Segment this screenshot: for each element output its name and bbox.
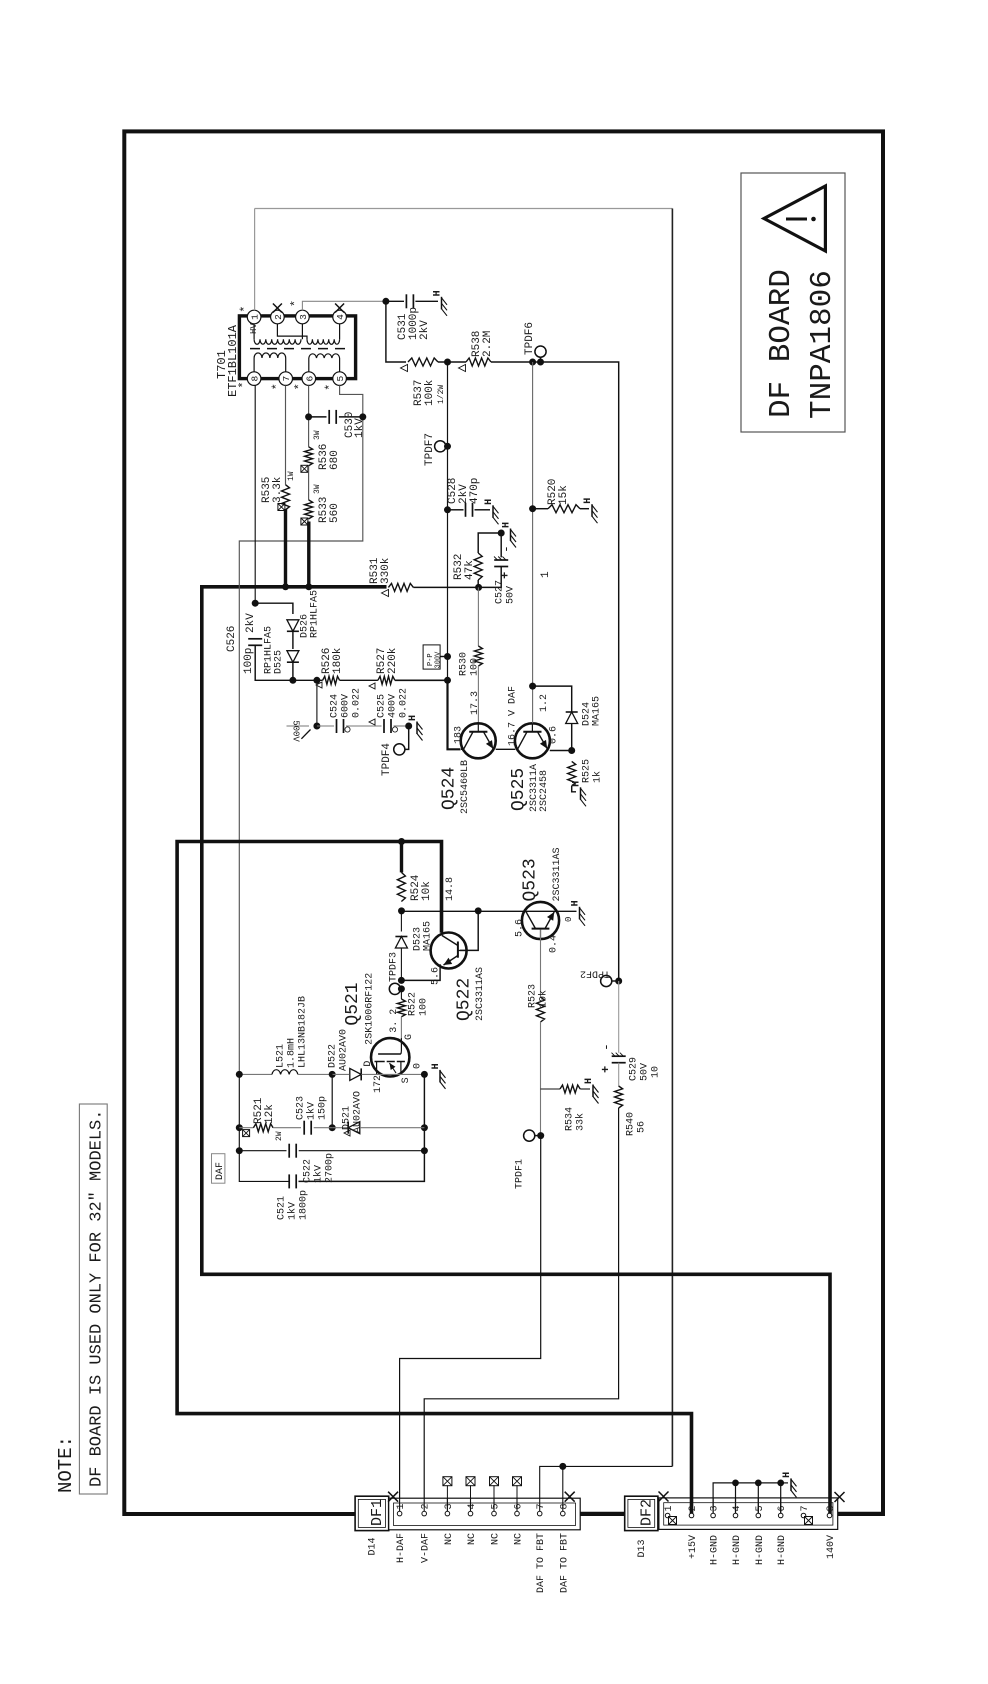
svg-text:C526: C526 [226,626,238,652]
svg-text:15k: 15k [558,485,570,505]
ground at R525 [580,787,582,800]
wire pin5/C530 route to DAF (gray) [239,385,362,1074]
svg-text:220k: 220k [387,647,399,674]
wire D525 to row [292,662,294,680]
wire 172V feed down to R521 row [239,1074,288,1181]
svg-text:5: 5 [755,1505,766,1511]
svg-text:1kV: 1kV [306,1102,318,1120]
svg-text:3W: 3W [313,430,322,440]
test point TPDF2 [580,968,619,987]
wire Q523 base down to R523 (gray) [540,930,542,998]
node C525/ground/TPDF4 [405,723,412,730]
svg-text:AU02AV0: AU02AV0 [339,1029,350,1071]
svg-text:2SC2458: 2SC2458 [539,770,550,812]
node R521 row left [236,1124,243,1131]
svg-text:TPDF2: TPDF2 [580,968,610,979]
svg-text:4: 4 [732,1505,743,1511]
svg-text:DF2: DF2 [639,1499,656,1526]
warning triangle [764,186,825,251]
svg-text:H: H [484,499,495,505]
capacitor C527 50V 1 (electrolytic) [479,533,517,604]
ground at R534 [592,1085,594,1098]
node R537/R538 [444,359,451,366]
wire R523 to TPDF1 node (gray) [540,1022,542,1136]
node TPDF2 [615,978,622,985]
svg-text:3W: 3W [313,484,322,494]
resistor R535 3.3k 1W [261,471,296,510]
connector DF1 label box [355,1496,389,1530]
svg-text:-: - [499,545,514,553]
svg-text:C522: C522 [303,1159,314,1183]
svg-text:50V: 50V [506,586,517,604]
node pin8/D526 branch [252,600,259,607]
svg-text:Q522: Q522 [454,978,474,1021]
svg-text:D: D [363,1061,374,1067]
svg-text:TPDF6: TPDF6 [524,322,536,355]
note box: DF BOARD IS USED ONLY FOR 32in MODELS [79,1104,107,1494]
svg-text:2.2M: 2.2M [482,331,494,357]
svg-text:0.022: 0.022 [399,688,410,718]
svg-text:DF BOARD IS USED ONLY FOR 32": DF BOARD IS USED ONLY FOR 32" MODELS. [88,1110,107,1487]
resistor R520 15k [533,479,589,513]
connector DF1 pins [368,1503,571,1593]
svg-text:H-GND: H-GND [755,1535,766,1565]
svg-text:H: H [408,715,419,721]
svg-text:NOTE:: NOTE: [55,1436,77,1493]
transistor Q522 2SC3311AS [431,933,487,1022]
svg-text:1800p: 1800p [299,1190,310,1220]
svg-text:TPDF3: TPDF3 [389,952,400,982]
wire C531 node to R537 [386,301,406,362]
resistor R524 10k [397,872,433,901]
diode D522 AU02AV0 [328,1029,425,1080]
svg-text:1: 1 [396,1503,407,1509]
title block box [741,173,845,432]
svg-text:V-DAF: V-DAF [421,1533,432,1563]
svg-text:8: 8 [250,375,261,381]
wire link node down (x=332.2) [331,1074,333,1127]
svg-text:TPDF1: TPDF1 [515,1159,526,1189]
node C523/D521 row link [329,1124,336,1131]
wire DF1 pin8 riser [562,1466,564,1511]
node R533/140V bus [305,583,312,590]
resistor R538 2.2M [459,331,495,372]
svg-text:H-GND: H-GND [732,1535,743,1565]
node TPDF3 upper [398,977,405,984]
svg-text:0.6: 0.6 [549,726,560,744]
svg-text:2SC3311AS: 2SC3311AS [552,847,563,901]
wire pin6 lead down [308,385,310,446]
connector DF1 NC terminators [443,1477,522,1512]
svg-text:LHL13NB182JB: LHL13NB182JB [298,996,309,1068]
callout box P-P 300V [423,645,451,669]
svg-text:S: S [401,1077,412,1083]
wire R526 to R527 [340,679,378,681]
svg-text:560: 560 [329,503,341,523]
diode D525 RP1HLFA5 [264,626,299,674]
svg-text:AU02AVO: AU02AVO [353,1091,364,1133]
svg-text:180k: 180k [332,647,344,674]
wire pin3 to C531 node (gray) [302,301,386,310]
transistor Q523 2SC3311AS [515,847,574,939]
node L521 row left [236,1071,243,1078]
svg-text:10k: 10k [538,990,550,1008]
wire R537 to R538 [438,361,466,363]
wire R535 to 140V bus thick [284,509,287,587]
svg-text:56: 56 [637,1121,648,1133]
svg-text:7: 7 [281,376,292,382]
svg-text:*: * [271,383,285,390]
resistor R534 33k [541,1085,591,1131]
svg-text:16.7 V DAF: 16.7 V DAF [507,686,518,746]
wire C526 to R526 row [255,645,293,680]
diode D524 MA165 [529,683,602,751]
node R531/R532/C527/R530 [475,584,482,591]
svg-text:330k: 330k [380,557,392,584]
diode D523 MA165 [395,911,433,981]
node D521 row right [421,1124,428,1131]
svg-text:3: 3 [444,1503,455,1509]
svg-text:2SC3311AS: 2SC3311AS [475,967,486,1021]
svg-text:2kV: 2kV [245,613,257,633]
svg-text:3: 3 [710,1505,721,1511]
svg-text:C524: C524 [330,694,341,718]
wire R536 to R533 (gray) [308,466,310,500]
svg-text:+: + [599,1066,613,1073]
wire R522 to Q521 gate (gray) [400,1017,402,1039]
svg-text:1: 1 [250,314,261,320]
svg-text:6: 6 [514,1503,525,1509]
ground at C524/C525 [416,722,418,735]
svg-text:RP1HLFA5: RP1HLFA5 [310,590,321,638]
svg-text:DF1: DF1 [369,1499,386,1526]
svg-text:1: 1 [540,571,552,578]
svg-text:*: * [324,384,338,391]
svg-text:1/2W: 1/2W [437,385,446,404]
transformer pin asterisks and X marks [237,300,344,391]
svg-text:2kV: 2kV [419,320,431,340]
capacitor C531 1000p 2kV [386,294,438,340]
node C530 left [305,413,312,420]
svg-text:MA165: MA165 [592,696,603,726]
svg-text:Q521: Q521 [343,982,363,1025]
inductor L521 1.8mH LHL13NB182JB [272,996,309,1074]
wire source node down x=424.4 [299,1074,425,1181]
node R524/D523/Q523-collector [398,907,405,914]
wire R533 to 140V bus thick [307,522,310,587]
svg-text:HV: HV [249,323,259,334]
svg-text:33k: 33k [575,1113,587,1131]
svg-text:10: 10 [651,1066,662,1078]
connector DF2 body [659,1498,838,1530]
svg-text:1kV: 1kV [313,1165,325,1183]
wire TPDF2 node to C529 (gray) [618,981,620,1053]
outer border frame [124,131,883,1514]
connector DF2 label box [625,1496,658,1530]
node Q521 source / ground [421,1071,428,1078]
node Q522 base branch [475,907,482,914]
capacitor C521 1kV 1800p [277,1174,310,1220]
wire 140V bus thick: DF2 pin8 - across - up - R531 [202,587,830,1511]
resistor R531 330k [369,557,413,596]
wire Q522 emitter to TPDF3 node [401,964,440,980]
svg-text:H: H [431,1063,442,1069]
wire H-GND bus DF2 pins3-6 [713,1480,788,1514]
wire collector rail to Q523 and through to ground [402,910,577,912]
wire H-DAF route: TPDF1 node to DF1 pin1 [400,1136,541,1512]
svg-text:7: 7 [536,1503,547,1509]
svg-text:4: 4 [335,314,346,320]
svg-text:1W: 1W [287,471,296,481]
svg-text:Q524: Q524 [440,767,460,810]
svg-text:172: 172 [373,1075,384,1093]
svg-text:10k: 10k [421,881,433,901]
node C528 branch [444,506,451,513]
svg-text:100p: 100p [243,648,255,674]
svg-text:50V: 50V [640,1063,651,1081]
svg-text:D13: D13 [637,1540,648,1558]
svg-text:1k: 1k [592,771,604,783]
node spark gap / C524 row [313,723,320,730]
connector DF2 pin1 pin7 terminators [669,1517,677,1525]
svg-text:100: 100 [419,998,430,1016]
svg-text:*: * [238,305,252,312]
svg-text:D525: D525 [274,650,285,674]
svg-text:R540: R540 [626,1112,637,1136]
svg-text:H: H [583,498,594,504]
svg-text:D522: D522 [328,1044,339,1068]
svg-text:12k: 12k [264,1104,276,1124]
connector DF1 end X marks [388,1492,398,1502]
ground at R532/C527 node [510,529,512,542]
ground at DF2 H-GND bus [790,1478,792,1491]
svg-text:H: H [502,522,513,528]
ground at C531 [441,297,443,310]
wire R537/R538 node down [447,362,449,680]
svg-text:680: 680 [329,450,341,470]
resistor R527 220k [369,647,399,689]
wire +15V bus thick: DF2 pin2 up across to Q522 [177,842,691,1512]
ground at Q523 emitter [579,907,581,920]
svg-text:470p: 470p [469,478,481,504]
svg-text:C521: C521 [277,1196,288,1220]
svg-text:Q525: Q525 [509,768,529,811]
wire row to R526 [293,679,323,681]
diode D521 AU02AV0 [332,1091,424,1136]
ground at Q521 source [439,1070,441,1083]
svg-text:600V: 600V [341,694,352,718]
svg-text:2SC5460LB: 2SC5460LB [460,760,471,814]
svg-text:NC: NC [444,1533,455,1545]
transistor Q524 2SC5460LB [440,691,496,814]
node D525/R526 row [289,677,296,684]
svg-text:500V: 500V [291,720,301,742]
node C531 junction [382,298,389,305]
resistor R522 100 [397,989,429,1017]
svg-text:NC: NC [491,1533,502,1545]
svg-text:5: 5 [491,1503,502,1509]
svg-text:150p: 150p [318,1096,329,1120]
svg-text:C527: C527 [495,580,506,604]
wire pin7 lead down [285,385,287,484]
node C522 row right [421,1147,428,1154]
svg-text:47k: 47k [464,560,476,580]
wire DAF TO FBT joining row [540,1466,673,1511]
svg-text:R525: R525 [582,759,593,783]
node C530 right / pin5 route [359,413,366,420]
test point TPDF7 [424,433,451,466]
svg-text:-: - [599,1043,614,1051]
svg-text:H-GND: H-GND [777,1535,788,1565]
thick border stub DF2 right [838,1512,881,1516]
wire R532 top loop [477,580,479,587]
wire Q524 collector thick [448,680,461,749]
node DF1 pin8 riser [559,1463,566,1470]
svg-text:*: * [289,300,303,307]
svg-text:DAF TO FBT: DAF TO FBT [536,1533,547,1593]
node C522 row left [236,1147,243,1154]
transistor Q521 2SK1006RF122 MOSFET [343,973,424,1093]
wire V-DAF route: R540 to DF1 pin2 [424,1108,618,1512]
svg-text:8: 8 [559,1503,570,1509]
svg-text:6: 6 [777,1505,788,1511]
connector DF2 pin stubs [692,1498,831,1514]
node Q525 emitter/D524/R525 [568,747,575,754]
wire L521 to D522 node (gray) [298,1073,332,1075]
transformer T701 body [239,316,355,379]
svg-text:H: H [571,900,582,906]
svg-text:0: 0 [564,917,574,922]
svg-text:+15V: +15V [688,1535,699,1559]
test point TPDF3 [389,952,402,995]
svg-text:0.022: 0.022 [352,688,363,718]
svg-text:H: H [433,290,444,296]
capacitor C525 400V 0.022 [369,688,410,733]
wire L521/D522/Q521-source row (gray) [239,1073,272,1075]
diode D526 RP1HLFA5 [287,590,321,638]
node TPDF6 stub dots [529,359,536,366]
svg-text:2: 2 [688,1505,699,1511]
wire pin8 lead down [254,385,256,603]
svg-text:17.3: 17.3 [470,691,481,715]
resistor R521 12k 2W [239,1097,301,1141]
svg-text:H: H [584,1078,595,1084]
svg-text:NC: NC [467,1533,478,1545]
resistor R530 100 [459,587,483,676]
wire DAF-TO-FBT long vertical [671,209,673,1467]
svg-text:4: 4 [467,1503,478,1509]
svg-text:L521: L521 [276,1044,287,1068]
svg-text:D14: D14 [368,1538,379,1556]
wire R530 to Q524 base (gray) [477,666,479,724]
node spark gap branch [313,677,320,684]
capacitor C523 1kV 150p [296,1096,333,1135]
wire Q522 base loop [460,911,479,951]
svg-text:2W: 2W [275,1131,284,1141]
svg-text:R530: R530 [459,652,470,676]
svg-text:DF BOARD: DF BOARD [764,269,799,418]
capacitor C522 1kV 2700p [239,1144,424,1183]
wire top rail (gray) [255,208,673,210]
spark gap 500V [287,680,317,742]
svg-text:1.2: 1.2 [539,694,550,712]
node R535/140V bus [282,583,289,590]
transistor Q525 2SC3311A 2SC2458 [507,686,559,812]
wire D526 branch across [255,603,293,614]
svg-text:5.6: 5.6 [515,919,526,937]
wire R527 to Q524-collector node [395,679,448,681]
svg-text:100k: 100k [424,379,436,406]
DAF label box [212,1154,227,1184]
svg-text:*: * [237,381,251,388]
svg-text:H-DAF: H-DAF [396,1533,407,1563]
node R520 branch [529,505,536,512]
capacitor C530 1kV [309,410,367,438]
connector DF1 pin stubs [400,1498,563,1512]
wire D526 to D525 [292,631,294,649]
svg-text:183: 183 [453,726,464,744]
svg-text:*: * [293,383,307,390]
svg-text:TPDF7: TPDF7 [424,433,436,466]
svg-text:2700p: 2700p [325,1153,336,1183]
svg-text:D521: D521 [342,1106,353,1130]
svg-text:300V: 300V [435,651,443,669]
svg-text:C525: C525 [377,694,388,718]
svg-text:DAF TO FBT: DAF TO FBT [559,1533,570,1593]
svg-text:0.4: 0.4 [549,935,560,953]
wire R531 to node [413,586,478,588]
connector DF1 body [389,1498,581,1530]
svg-text:+: + [499,572,513,579]
wire Q525 emitter to node [550,750,572,752]
wire TPDF6 node down to Q525 base (gray) [532,362,534,686]
svg-text:G: G [404,1034,415,1040]
svg-text:R523: R523 [528,984,539,1008]
node D522/C523 link [329,1071,336,1078]
thick link DF1 to DF2 on border [580,1512,625,1516]
svg-text:TPDF4: TPDF4 [381,743,393,776]
svg-text:1kV: 1kV [287,1202,299,1220]
ground at C528 [492,505,494,518]
resistor R537 100k 1/2W [401,358,447,406]
svg-text:5: 5 [335,375,346,381]
svg-text:DAF: DAF [215,1162,226,1180]
wire Q524 emitter to Q525 collector [496,748,515,750]
wire pin1 stub up (gray) [254,209,256,311]
svg-text:2SK1006RF122: 2SK1006RF122 [365,973,376,1045]
svg-text:C529: C529 [629,1057,640,1081]
svg-text:2: 2 [421,1503,432,1509]
node R524 branch on +15V bus [398,838,405,845]
svg-text:7: 7 [800,1505,811,1511]
svg-text:140V: 140V [826,1535,837,1559]
svg-text:R522: R522 [408,992,419,1016]
node TPDF1 [537,1132,544,1139]
capacitor C528 2kV 470p [447,478,490,517]
connector DF2 pins [637,1505,837,1565]
resistor R540 56 [615,1086,648,1136]
svg-text:400V: 400V [388,694,399,718]
wire Q525 base from divider (gray) [532,686,534,723]
resistor R532 47k [453,553,482,580]
svg-text:2: 2 [273,314,284,320]
svg-text:R534: R534 [565,1107,576,1131]
connector DF2 end X marks [659,1492,669,1502]
svg-text:1: 1 [664,1505,675,1511]
svg-text:Q523: Q523 [521,858,541,901]
node Q524 collector branch [444,677,451,684]
resistor R526 180k [316,647,344,688]
